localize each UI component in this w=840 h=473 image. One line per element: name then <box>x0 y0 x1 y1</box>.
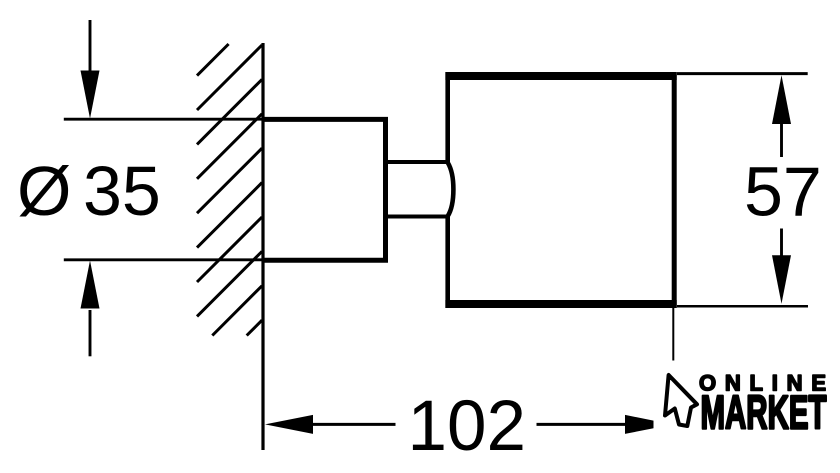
cup top edge <box>445 72 676 80</box>
102 extension line <box>672 308 674 361</box>
svg-text:MARKET: MARKET <box>701 386 827 439</box>
57 down arrow <box>772 229 791 304</box>
102 left arrow <box>265 415 396 434</box>
cup left edge with bulge <box>448 72 454 308</box>
dia35 down arrow <box>81 20 100 119</box>
hatching <box>197 44 262 336</box>
svg-text:35: 35 <box>83 152 161 230</box>
svg-text:57: 57 <box>744 153 822 231</box>
57 up arrow <box>772 75 791 157</box>
cup right edge <box>672 72 677 308</box>
flange <box>263 119 386 260</box>
wall <box>261 43 264 450</box>
svg-text:Ø: Ø <box>17 152 71 230</box>
logo cursor <box>665 375 697 426</box>
57 top extension line <box>677 72 808 75</box>
neck top <box>386 160 449 164</box>
dia35 bottom extension line <box>64 258 263 261</box>
102 right arrow <box>537 415 654 434</box>
cup bottom edge <box>445 300 676 308</box>
dia35 top extension line <box>64 118 263 121</box>
neck bottom <box>386 215 449 219</box>
dia35 up arrow <box>81 261 100 357</box>
57 bottom extension line <box>677 305 808 308</box>
svg-text:102: 102 <box>408 387 526 466</box>
